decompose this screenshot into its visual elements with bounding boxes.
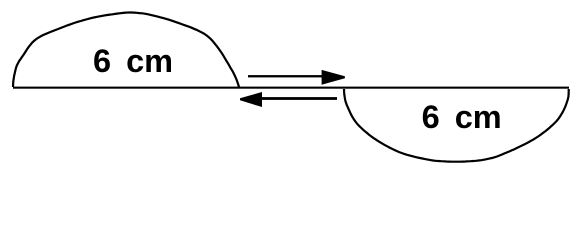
svg-text:6 cm: 6 cm	[93, 43, 173, 79]
svg-text:6 cm: 6 cm	[422, 99, 502, 135]
